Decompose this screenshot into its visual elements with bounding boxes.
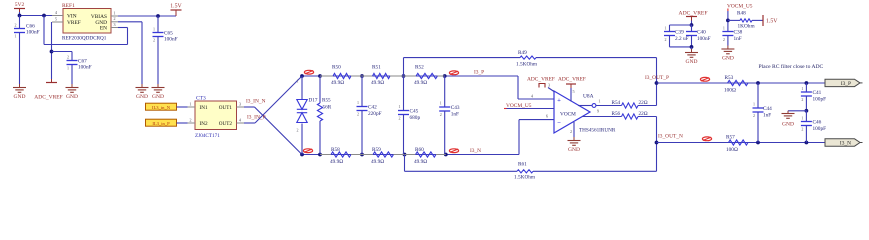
wire VOCM_U5 — [726, 11, 730, 31]
wire cap bottoms — [670, 45, 694, 50]
pin 1 IN1 — [188, 101, 196, 107]
pin 4 OUT2 — [237, 117, 245, 123]
differential pair marker bottom left — [303, 149, 312, 153]
svg-text:R49: R49 — [518, 50, 527, 56]
svg-text:1nF: 1nF — [451, 112, 459, 118]
svg-text:1: 1 — [598, 99, 600, 104]
svg-text:100pF: 100pF — [813, 97, 827, 103]
power port 5V2 — [14, 2, 25, 12]
wire op-amp ground pin — [570, 122, 574, 137]
net label VOCM_U5 at op-amp — [504, 103, 532, 109]
svg-text:GND: GND — [722, 56, 734, 62]
capacitor C44 — [753, 83, 773, 143]
wire feedback top to output — [655, 58, 659, 106]
power port 1.5V right — [763, 15, 778, 26]
resistor R57 — [726, 135, 748, 154]
resistor R58 — [320, 147, 362, 165]
svg-text:R48: R48 — [737, 11, 746, 17]
svg-text:1: 1 — [153, 27, 155, 32]
svg-text:2: 2 — [189, 117, 191, 122]
ground under C65 — [157, 84, 159, 88]
svg-text:49.9Ω: 49.9Ω — [371, 80, 384, 86]
capacitor C40 — [686, 25, 711, 47]
wire VREF to ADC_VREF — [50, 22, 72, 79]
svg-text:49.9Ω: 49.9Ω — [414, 159, 427, 165]
svg-text:1nF: 1nF — [763, 113, 771, 119]
svg-text:100pF: 100pF — [813, 126, 827, 132]
resistor R48 — [728, 11, 763, 30]
wire I3_OUT_P rail — [657, 81, 826, 85]
svg-text:2: 2 — [399, 116, 401, 121]
svg-text:1: 1 — [297, 79, 299, 84]
ground RC filter — [782, 111, 795, 128]
svg-text:C39: C39 — [675, 30, 684, 36]
svg-text:GND: GND — [136, 94, 148, 100]
power port ADC_VREF pin5 — [558, 77, 586, 102]
svg-text:I3_IN_P: I3_IN_P — [247, 115, 266, 121]
ground under C38 — [727, 46, 729, 50]
svg-text:EN: EN — [100, 26, 107, 32]
wire bottom rail — [300, 120, 554, 157]
resistor R55 — [317, 76, 331, 155]
svg-text:22Ω: 22Ω — [639, 100, 648, 106]
svg-text:2: 2 — [153, 38, 155, 43]
svg-text:1: 1 — [399, 104, 401, 109]
svg-text:ADC_VREF: ADC_VREF — [558, 77, 586, 83]
svg-text:100Ω: 100Ω — [724, 88, 736, 94]
resistor R56 — [612, 111, 657, 119]
pin 3 OUT1 — [237, 101, 245, 107]
resistor R50 — [320, 65, 362, 87]
svg-text:GND: GND — [568, 147, 580, 153]
svg-text:ZJ04CT171: ZJ04CT171 — [195, 133, 220, 139]
svg-text:GND: GND — [152, 94, 164, 100]
svg-text:1: 1 — [723, 26, 725, 31]
svg-text:−: − — [557, 120, 561, 127]
capacitor C39 — [664, 25, 689, 47]
svg-text:I3_N: I3_N — [470, 148, 481, 154]
svg-text:100nF: 100nF — [697, 36, 711, 42]
svg-text:49.9Ω: 49.9Ω — [414, 80, 427, 86]
svg-text:100Ω: 100Ω — [726, 147, 738, 153]
svg-text:220pF: 220pF — [368, 111, 382, 117]
svg-text:GND: GND — [66, 94, 78, 100]
svg-text:ADC_VREF: ADC_VREF — [34, 95, 62, 101]
svg-text:I3_P: I3_P — [841, 81, 851, 87]
port IL3_in_N — [146, 103, 177, 110]
svg-text:IL3_in_N: IL3_in_N — [152, 105, 171, 110]
svg-text:49.9Ω: 49.9Ω — [330, 159, 343, 165]
wire 5V2 to VIN — [18, 12, 52, 17]
differential pair marker top mid — [449, 71, 458, 75]
svg-text:IN2: IN2 — [200, 121, 208, 127]
svg-text:C41: C41 — [813, 90, 822, 96]
differential pair marker I3_OUT_P — [700, 77, 709, 81]
svg-text:49.9Ω: 49.9Ω — [331, 80, 344, 86]
svg-text:R53: R53 — [725, 75, 734, 81]
svg-text:22Ω: 22Ω — [639, 111, 648, 117]
port I3_N — [825, 139, 863, 147]
wire OUT1 crossing down — [244, 107, 302, 155]
svg-text:R51: R51 — [372, 65, 381, 71]
svg-text:VREF: VREF — [67, 20, 81, 26]
svg-text:2: 2 — [801, 127, 803, 132]
resistor R61 feedback bottom — [405, 155, 657, 181]
svg-text:OUT1: OUT1 — [219, 105, 233, 111]
svg-text:C38: C38 — [734, 30, 743, 36]
svg-text:1.5V: 1.5V — [766, 19, 778, 25]
svg-text:VOCM_U5: VOCM_U5 — [727, 4, 753, 10]
diode D17 TVS — [297, 76, 318, 155]
svg-text:IN1: IN1 — [200, 105, 208, 111]
wire I3_OUT_N rail — [657, 141, 826, 145]
capacitor C43 — [439, 76, 460, 155]
resistor R51 — [362, 65, 404, 87]
ground under C66 — [19, 84, 21, 88]
resistor R59 — [362, 147, 405, 165]
svg-text:C40: C40 — [697, 30, 706, 36]
op-amp REF1 REF2030 — [62, 3, 111, 42]
capacitor C67 — [67, 52, 92, 85]
wire IL3_in_P to IN2 — [177, 122, 188, 124]
svg-text:100nF: 100nF — [164, 37, 178, 43]
wire IL3_in_N to IN1 — [177, 106, 188, 108]
svg-text:I3_OUT_P: I3_OUT_P — [645, 75, 669, 81]
capacitor C65 — [153, 16, 178, 84]
wire feedback bottom to output — [655, 117, 659, 172]
svg-text:GND: GND — [686, 59, 698, 65]
capacitor C45 — [398, 76, 420, 155]
capacitor C42 — [357, 76, 382, 155]
differential pair marker top left — [304, 70, 313, 74]
svg-text:2: 2 — [15, 23, 17, 28]
svg-text:GND: GND — [14, 94, 26, 100]
svg-text:R52: R52 — [415, 65, 424, 71]
svg-text:56R: 56R — [323, 105, 332, 111]
svg-text:1.5KOhm: 1.5KOhm — [516, 62, 538, 68]
svg-text:1: 1 — [113, 10, 115, 15]
op-amp U8A THS4561 — [554, 91, 616, 134]
svg-text:GND: GND — [782, 122, 794, 128]
ground ADC_VREF caps — [691, 49, 693, 53]
resistor R53 — [724, 75, 748, 94]
svg-text:VOCM: VOCM — [560, 112, 576, 118]
wire output inverting — [578, 99, 622, 108]
svg-text:2: 2 — [570, 129, 572, 134]
resistor R54 — [612, 100, 657, 108]
svg-text:2: 2 — [297, 128, 299, 133]
svg-text:100nF: 100nF — [26, 30, 40, 36]
svg-text:ADC_VREF: ADC_VREF — [527, 77, 555, 83]
svg-text:5: 5 — [572, 89, 574, 94]
svg-text:R56: R56 — [612, 111, 621, 117]
svg-text:C44: C44 — [763, 106, 772, 112]
ground under C67 — [71, 84, 73, 88]
svg-text:I3_OUT_N: I3_OUT_N — [658, 134, 683, 140]
svg-text:REF2030QDDCRQ1: REF2030QDDCRQ1 — [62, 36, 107, 42]
svg-text:1: 1 — [801, 86, 803, 91]
svg-text:ADC_VREF: ADC_VREF — [679, 11, 708, 17]
svg-text:C45: C45 — [410, 109, 419, 115]
svg-text:680p: 680p — [410, 115, 421, 121]
pin 2 GND — [111, 16, 118, 22]
ground under REF1 GND pin — [141, 84, 143, 88]
svg-text:1: 1 — [801, 116, 803, 121]
svg-text:2: 2 — [753, 113, 755, 118]
wire REF1 GND pin — [118, 22, 142, 84]
ground under op-amp — [573, 137, 575, 141]
svg-text:I3_P: I3_P — [474, 70, 484, 76]
svg-text:2: 2 — [113, 16, 115, 21]
svg-text:D17: D17 — [309, 98, 318, 104]
svg-text:OUT2: OUT2 — [219, 121, 233, 127]
transformer CT3 — [195, 96, 237, 139]
differential pair marker bottom mid — [449, 149, 458, 153]
svg-text:C43: C43 — [451, 105, 460, 111]
svg-text:R57: R57 — [726, 135, 735, 141]
wire output noninverting — [582, 109, 622, 117]
power port 1.5V — [170, 4, 182, 17]
power port ADC_VREF pin3 — [527, 77, 555, 92]
svg-text:I3_N: I3_N — [840, 141, 851, 147]
svg-text:R59: R59 — [372, 147, 381, 153]
pin 2 IN2 — [188, 117, 196, 123]
svg-text:1.5V: 1.5V — [170, 4, 182, 10]
net label VOCM_U5 top right — [727, 4, 753, 12]
svg-text:1: 1 — [189, 101, 191, 106]
svg-text:49.9Ω: 49.9Ω — [371, 159, 384, 165]
svg-text:1: 1 — [357, 100, 359, 105]
svg-text:R61: R61 — [518, 162, 527, 168]
svg-text:R55: R55 — [322, 98, 331, 104]
svg-text:2.2 uF: 2.2 uF — [675, 36, 689, 42]
svg-text:VIN: VIN — [67, 14, 77, 20]
svg-text:5V2: 5V2 — [15, 2, 25, 8]
wire VOCM input — [507, 109, 555, 119]
svg-text:2: 2 — [357, 112, 359, 117]
svg-text:1: 1 — [15, 34, 17, 39]
svg-text:R50: R50 — [332, 65, 341, 71]
svg-text:C42: C42 — [368, 105, 377, 111]
svg-text:C46: C46 — [813, 120, 822, 126]
svg-text:1nF: 1nF — [734, 36, 742, 42]
svg-text:2: 2 — [801, 97, 803, 102]
wire OUT2 crossing up — [244, 76, 302, 123]
capacitor C41 — [801, 83, 826, 113]
svg-text:THS4561IRUNR: THS4561IRUNR — [579, 128, 616, 134]
svg-text:1: 1 — [440, 101, 442, 106]
wire VBIAS to 1.5V — [118, 14, 176, 18]
svg-text:2: 2 — [440, 112, 442, 117]
svg-text:3: 3 — [548, 83, 550, 88]
svg-text:2: 2 — [723, 37, 725, 42]
svg-text:U8A: U8A — [583, 94, 594, 100]
svg-text:2: 2 — [665, 37, 667, 42]
wire to RC ground — [788, 110, 806, 112]
differential pair marker I3_OUT_N — [702, 137, 711, 141]
capacitor C46 — [801, 111, 826, 143]
svg-text:1: 1 — [67, 66, 69, 71]
svg-text:R54: R54 — [612, 100, 621, 106]
svg-text:1: 1 — [665, 26, 667, 31]
pin 5 VREF — [52, 16, 63, 22]
power port ADC_VREF left — [34, 79, 62, 101]
power port ADC_VREF top right — [670, 11, 708, 27]
svg-text:R60: R60 — [415, 147, 424, 153]
pin 1 VBIAS — [111, 10, 118, 16]
svg-text:2: 2 — [67, 55, 69, 60]
svg-text:IL3_in_P: IL3_in_P — [152, 121, 170, 126]
svg-text:100nF: 100nF — [78, 65, 92, 71]
resistor R49 feedback top — [404, 50, 657, 76]
pin 3 EN — [111, 22, 118, 28]
svg-text:+: + — [557, 97, 561, 104]
capacitor C38 — [722, 26, 742, 46]
wire EN loop — [44, 16, 128, 45]
resistor R60 — [405, 147, 446, 165]
svg-text:1.5KOhm: 1.5KOhm — [514, 175, 536, 181]
wire top rail — [300, 74, 554, 99]
port IL3_in_P — [146, 119, 177, 126]
resistor R52 — [404, 65, 445, 87]
port I3_P — [825, 79, 863, 87]
svg-text:Place RC filter close to ADC: Place RC filter close to ADC — [759, 63, 824, 70]
pin 4 VIN — [52, 10, 63, 16]
svg-text:1: 1 — [753, 102, 755, 107]
svg-text:R58: R58 — [331, 147, 340, 153]
svg-text:I3_IN_N: I3_IN_N — [246, 99, 266, 105]
capacitor C66 — [14, 16, 40, 85]
